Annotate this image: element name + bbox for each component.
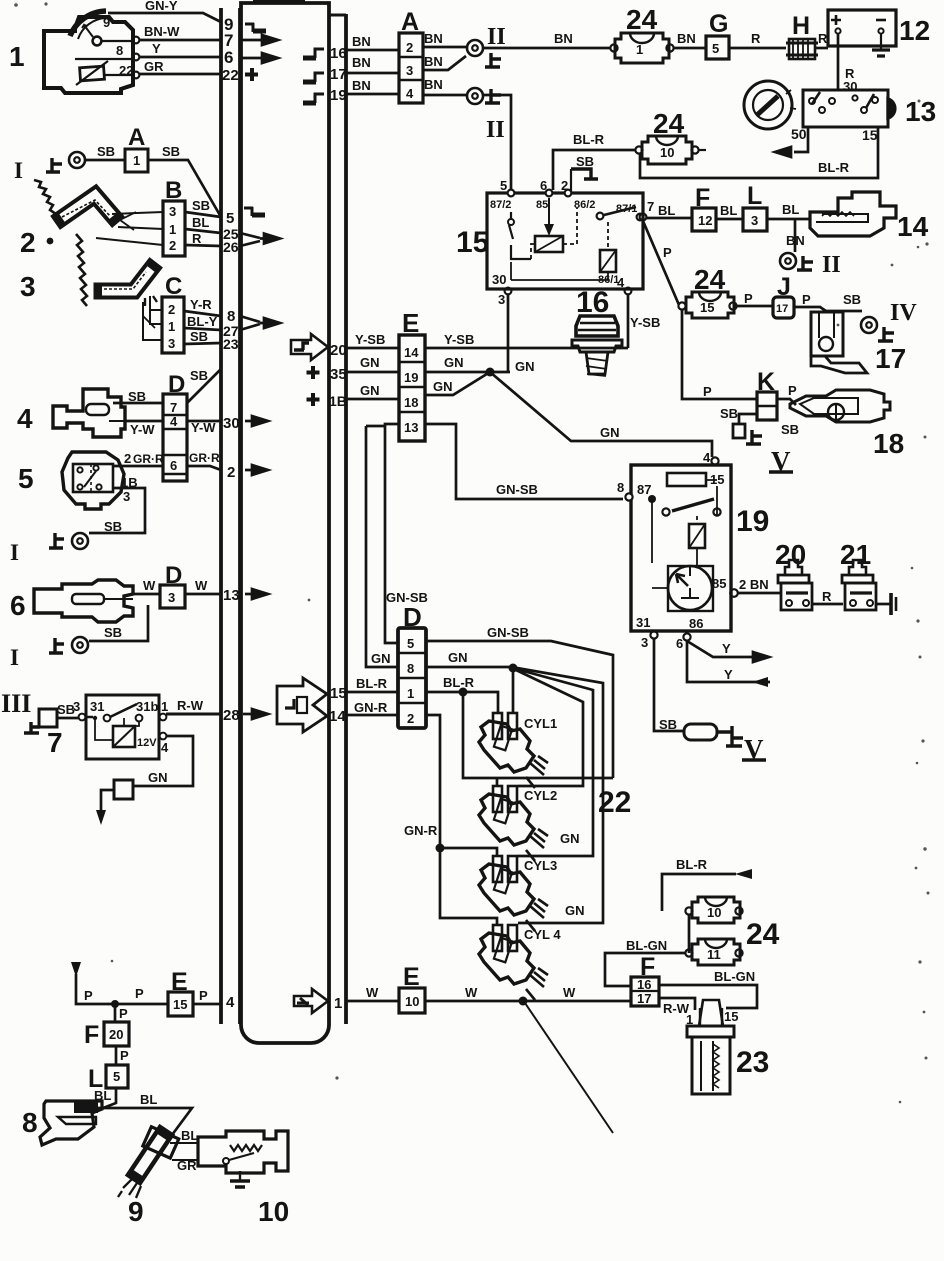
wire 15 down and BL-R to relay 24-10 [640,127,878,178]
svg-text:BN: BN [352,78,371,93]
connector box E center [399,335,425,441]
svg-text:GN: GN [444,355,464,370]
fan wire to CYL4 right [517,668,603,923]
svg-text:13: 13 [223,587,240,604]
svg-text:I: I [10,645,19,670]
ECU key at pin 5 [244,207,265,216]
svg-text:5: 5 [712,41,719,56]
fuse box G5 [706,36,729,59]
wire GN-SB E13 to box19 pin87 [425,424,623,499]
wire BL F12 to L3 [716,203,743,219]
svg-text:P: P [135,986,144,1001]
svg-text:GR: GR [144,59,164,74]
svg-text:17: 17 [330,66,347,83]
wire BN bus17 to A3 [347,55,399,73]
svg-text:23: 23 [223,336,239,352]
main relay box 15 [487,178,643,289]
svg-text:BL-GN: BL-GN [626,938,667,953]
wire W comp6 to D3 [133,578,160,594]
component 6 injector [34,580,133,622]
target connector row2 [72,533,88,549]
svg-text:16: 16 [330,45,347,62]
svg-text:C: C [165,273,182,300]
arrow down from GN box [96,790,114,825]
svg-text:3: 3 [20,271,36,302]
wires component3 to C [143,296,162,340]
svg-text:8: 8 [116,43,123,58]
junction dot GN-R [436,844,445,853]
svg-text:2: 2 [169,238,176,253]
svg-text:2: 2 [227,464,235,481]
ECU arrow at pin 2 [245,465,268,475]
svg-text:GR: GR [177,1158,197,1173]
top margin artifact [253,0,305,4]
svg-text:1: 1 [407,686,414,701]
svg-text:12V: 12V [137,737,157,749]
svg-text:85: 85 [536,199,548,211]
svg-text:GN-Y: GN-Y [145,0,178,13]
svg-text:G: G [709,10,728,38]
fuse box E15 [168,992,193,1016]
svg-text:15: 15 [862,127,878,143]
svg-text:SB: SB [104,519,122,534]
svg-text:IV: IV [890,300,917,326]
wire GN E18 to junction diagonal [425,372,490,395]
svg-text:W: W [563,985,576,1000]
wire BN to relay 24-1 [484,31,610,48]
svg-text:20: 20 [775,539,806,570]
ECU key at pin 19 [303,94,324,103]
wire GN D8 to fan junction [426,650,513,667]
SB wire K down to ground box [720,406,757,424]
GN termination box [114,780,133,799]
svg-text:8: 8 [617,480,624,495]
box15 pin 7 87/1 [640,199,655,220]
svg-text:SB: SB [190,329,208,344]
SB key at box15 pin2 [571,154,598,191]
svg-text:9: 9 [103,15,110,30]
wire 24-10 to 24-11 [688,915,691,953]
svg-text:CYL2: CYL2 [524,788,557,803]
wire BL-R D1 right to CYL1 [426,675,498,713]
wire Y arrow left [687,641,770,687]
svg-text:24: 24 [746,918,780,951]
svg-text:P: P [120,1048,129,1063]
svg-text:6: 6 [170,458,177,473]
svg-text:BL: BL [782,202,799,217]
wire P 24-15 to J17 [737,291,773,306]
svg-text:BL-R: BL-R [676,857,708,872]
wire Y-R to bus8 [184,297,221,316]
svg-text:2: 2 [124,451,131,466]
wire pin3 down to SB resistor [654,639,684,732]
svg-text:4: 4 [617,275,625,290]
svg-text:SB: SB [781,422,799,437]
svg-text:GN: GN [448,650,468,665]
svg-text:F: F [84,1021,99,1049]
svg-text:15: 15 [700,300,714,315]
svg-text:CYL1: CYL1 [524,716,557,731]
fan wire to CYL2 right [516,670,583,786]
ground key row1 [46,158,62,172]
box19 pin 3 [641,631,658,650]
wire BN A3 diagonal up [423,54,466,70]
svg-text:P: P [663,245,672,260]
svg-text:2 BN: 2 BN [739,577,769,592]
component 14 horn bracket [810,192,896,236]
wire box15 pin4 down to Y-SB [627,294,630,348]
svg-text:9: 9 [128,1196,144,1227]
svg-text:GN: GN [560,831,580,846]
relay oval 24-10 top [635,136,706,164]
ground key under it [24,722,40,733]
svg-text:GR·R: GR·R [133,452,164,466]
wire GN branch down to D8 [366,426,398,667]
ECU arrow at pin 28 [243,709,268,719]
svg-text:SB: SB [162,144,180,159]
svg-text:3: 3 [168,336,175,351]
wire BL-GN 24-11 to F16 [605,938,685,986]
SB inline resistor [684,724,717,740]
wire BN down to target II-3 [786,219,805,252]
dot near 2 [47,238,54,245]
svg-text:GN-SB: GN-SB [487,625,529,640]
wire pin4 to GN box [133,736,193,786]
relay oval 24-10 bottom [685,897,742,923]
svg-text:Y-SB: Y-SB [630,315,660,330]
svg-text:6: 6 [676,636,683,651]
wire comp6 to SB ground row3 [89,605,148,641]
wire BL-Y to bus27 [184,314,221,330]
svg-text:1: 1 [334,995,342,1012]
svg-text:II: II [486,117,505,143]
wire BN A4 to target II-2 [423,77,466,95]
fan wire to CYL3 right [516,669,593,856]
svg-text:F: F [640,953,655,981]
wire P down from junction [115,1004,128,1022]
wire P K to comp18 [777,383,797,405]
ground right of 21 [876,593,896,615]
svg-text:BN: BN [677,31,696,46]
svg-text:26: 26 [223,239,239,255]
injector CYL3 [479,856,548,931]
svg-text:GN: GN [433,379,453,394]
svg-text:3: 3 [169,204,176,219]
wire P F20 to L5 [116,1046,129,1065]
box19 pin 85 [730,589,738,597]
wire SB to A1 [85,144,125,160]
svg-text:50: 50 [791,126,807,142]
svg-text:CYL 4: CYL 4 [524,927,561,942]
svg-text:I: I [14,158,23,183]
svg-text:5: 5 [18,463,34,494]
svg-text:Y: Y [152,41,161,56]
wires component2 to B [96,212,163,245]
svg-text:SB: SB [97,144,115,159]
svg-text:Y: Y [722,641,731,656]
svg-text:87/2: 87/2 [490,199,511,211]
svg-text:BN: BN [554,31,573,46]
svg-text:22: 22 [222,67,239,84]
svg-text:II: II [487,24,506,50]
wire P 87/1 down to 24-15 [643,221,679,305]
fuse box F20 [104,1022,129,1046]
svg-text:GN: GN [600,425,620,440]
component 4 sensor [53,389,125,437]
svg-text:18: 18 [404,395,418,410]
wire Y-SB bus20 to E14 [347,332,399,348]
ref V second [742,734,766,764]
svg-text:18: 18 [873,428,904,459]
svg-text:30: 30 [76,1102,88,1114]
svg-text:E: E [402,308,419,338]
svg-text:4: 4 [703,450,711,465]
svg-text:GN: GN [515,359,535,374]
ECU main box [241,3,329,1043]
svg-text:W: W [143,578,156,593]
svg-text:SB: SB [576,154,594,169]
svg-text:BN: BN [424,54,443,69]
svg-text:19: 19 [404,370,418,385]
key ground under K [746,430,762,444]
svg-text:BN: BN [786,233,805,248]
wire BL comp8 right [98,1092,192,1143]
svg-text:BL-Y: BL-Y [187,314,218,329]
svg-text:21: 21 [840,539,871,570]
svg-text:CYL3: CYL3 [524,858,557,873]
svg-text:GN-R: GN-R [404,823,438,838]
connector box D [163,394,187,481]
svg-text:GN-R: GN-R [354,700,388,715]
ignition lock cylinder [744,81,796,129]
svg-text:BL-R: BL-R [443,675,475,690]
wire R G5 to H [729,31,786,48]
svg-text:24: 24 [626,4,658,35]
svg-text:8: 8 [22,1107,38,1138]
svg-text:4: 4 [170,414,178,429]
wire BN bus16 to A2 [347,34,399,50]
svg-text:35: 35 [330,366,347,383]
svg-text:E: E [171,968,188,996]
wire P J17 to 17 and SB to IV [794,292,862,311]
target connector II-3 [780,253,796,269]
component 3 cable connector [102,269,157,306]
svg-text:85: 85 [712,576,726,591]
ECU merge arrow pins 25 26 [240,233,280,246]
ignition switch box 13 [803,90,895,127]
wire BN A2 to target II-1 [423,31,466,47]
wire R-W relay7 to bus28 [166,698,221,714]
junction dot BL-R [459,688,468,697]
component 20 knock sensor [778,560,812,610]
svg-text:GN: GN [371,651,391,666]
box15 pin 4 [617,275,631,294]
connector box B [163,201,185,256]
svg-text:30: 30 [492,272,506,287]
svg-text:10: 10 [660,145,674,160]
svg-text:SB: SB [720,406,738,421]
wire Y-W comp4 to D4 [125,421,163,437]
wires BL GR comp9 to comp10 [170,1143,198,1160]
svg-text:3: 3 [123,489,130,504]
svg-text:P: P [788,383,797,398]
svg-text:12: 12 [698,213,712,228]
junction dot GN fan [509,664,518,673]
wire R battery down to ign switch 13 [838,34,857,94]
svg-text:2: 2 [406,40,413,55]
wire R comp20 to comp21 [812,589,843,604]
svg-text:20: 20 [330,342,347,359]
svg-text:1: 1 [168,319,175,334]
svg-text:Y-W: Y-W [191,420,216,435]
svg-text:10: 10 [258,1196,289,1227]
wire P 24-15 left pin down to K [682,310,757,399]
svg-text:12: 12 [899,15,930,46]
svg-text:16: 16 [576,286,609,319]
svg-text:1: 1 [169,222,176,237]
wire GR-R comp5 to D6 [113,451,164,466]
svg-text:BL: BL [658,203,675,218]
svg-text:2: 2 [561,178,568,193]
wire GN-R D2 right down [404,715,440,845]
svg-text:B: B [165,177,182,204]
control unit box 19 [617,450,731,631]
svg-text:86: 86 [689,616,703,631]
wire R B2 to bus26 [185,231,221,246]
wire Y-W D4 to bus30 [187,420,221,435]
fan wire to CYL1 right [512,672,515,713]
svg-text:BN: BN [352,55,371,70]
svg-text:BL-R: BL-R [818,160,850,175]
svg-text:2: 2 [20,227,36,258]
component 18 gear selector [790,390,890,422]
svg-text:3: 3 [641,635,648,650]
connector box K [757,392,777,420]
ground connector box left of 7 [39,709,57,727]
ECU key symbol at pin 9 [245,23,266,32]
svg-text:24: 24 [653,108,685,139]
svg-text:P: P [119,1006,128,1021]
wire box15 pin3 down to GN wire [507,294,510,372]
wire GN E19 to junction [425,355,535,374]
svg-text:13: 13 [404,420,418,435]
svg-text:1: 1 [161,699,168,714]
svg-text:D: D [165,562,182,589]
svg-text:17: 17 [875,343,906,374]
svg-text:BN: BN [424,31,443,46]
connector box C [162,297,184,353]
connector box L3 [743,208,767,231]
ground box under K [733,424,745,438]
junction dot GN [486,368,495,377]
box15 pin 3 [498,288,511,307]
fuse box E10 [399,988,425,1013]
ECU arrow at pin 6 [241,53,278,63]
wire SB comp4 to D7 [113,389,163,404]
svg-text:R-W: R-W [177,698,204,713]
ECU arrow at pin 13 [245,589,268,599]
ECU plus at pin 22 [245,68,258,81]
target connector IV-1 [861,317,877,333]
svg-text:20: 20 [109,1027,123,1042]
wire SB to bus23 [184,329,221,344]
svg-text:BL: BL [181,1128,198,1143]
svg-text:8: 8 [407,661,414,676]
wire BL 87/1 to F12 [646,203,692,218]
svg-text:A: A [401,8,419,36]
svg-text:Y-R: Y-R [190,297,212,312]
svg-text:Y-W: Y-W [130,422,155,437]
wire GN-R to CYL4 [440,848,497,925]
ECU key at pin 17 [303,73,324,82]
svg-text:SB: SB [192,198,210,213]
svg-text:10: 10 [405,994,419,1009]
target connector II-1 [467,40,483,56]
wire down to box15 pin5 [484,95,511,193]
wire GN bus35 to E19 [347,355,399,372]
wire P E15 to bus4 [193,988,221,1004]
svg-text:R: R [751,31,761,46]
fuse box F16 17 [631,977,659,1006]
svg-text:SB: SB [190,368,208,383]
relay oval 24-1 [610,33,673,63]
svg-text:SB: SB [104,625,122,640]
ECU arrow at pin 30 [245,416,268,426]
wire GN-SB D5 right [426,625,613,778]
wire R-W F17 to coil 1 [659,998,695,1016]
svg-text:6: 6 [224,48,233,67]
GN long diagonal to box19 pin4 [490,372,712,457]
P feed arrow down [71,962,168,1004]
ECU merge arrow pins 8 27 [240,316,280,330]
key ground IV-2 [717,726,743,746]
svg-text:22: 22 [598,786,631,819]
svg-text:1: 1 [686,1012,693,1027]
wire GN-R bus14 to D2 [347,700,398,715]
svg-text:R: R [822,589,832,604]
wire SB B3 to bus5 [185,198,221,217]
wire GN-R to CYL3 [440,848,497,856]
svg-text:23: 23 [736,1046,769,1079]
wire GN-SB E13 left branch down [385,424,399,643]
svg-text:4: 4 [161,740,169,755]
svg-text:19: 19 [330,87,347,104]
svg-text:GR·R: GR·R [189,451,220,465]
ref V [769,446,793,476]
svg-text:F: F [695,184,710,212]
injector CYL2 [479,786,548,861]
svg-text:GN: GN [565,903,585,918]
svg-text:5: 5 [226,210,234,227]
svg-text:3: 3 [751,213,758,228]
svg-text:II: II [822,252,841,278]
svg-text:SB: SB [128,389,146,404]
svg-text:R: R [192,231,202,246]
svg-text:BN: BN [424,77,443,92]
svg-text:7: 7 [170,400,177,415]
wire 1B 3 to SB ground [89,475,145,533]
svg-text:E: E [403,963,420,991]
svg-text:1: 1 [636,42,643,57]
svg-text:14: 14 [404,345,419,360]
svg-text:10: 10 [707,905,721,920]
wire BL L3 to comp14 [767,202,810,219]
svg-text:Y-SB: Y-SB [444,332,474,347]
svg-text:22: 22 [119,63,133,78]
svg-text:GN-SB: GN-SB [386,590,428,605]
wire SB D7 to bus [187,368,221,403]
wire W bus1 to E10 [347,985,399,1001]
